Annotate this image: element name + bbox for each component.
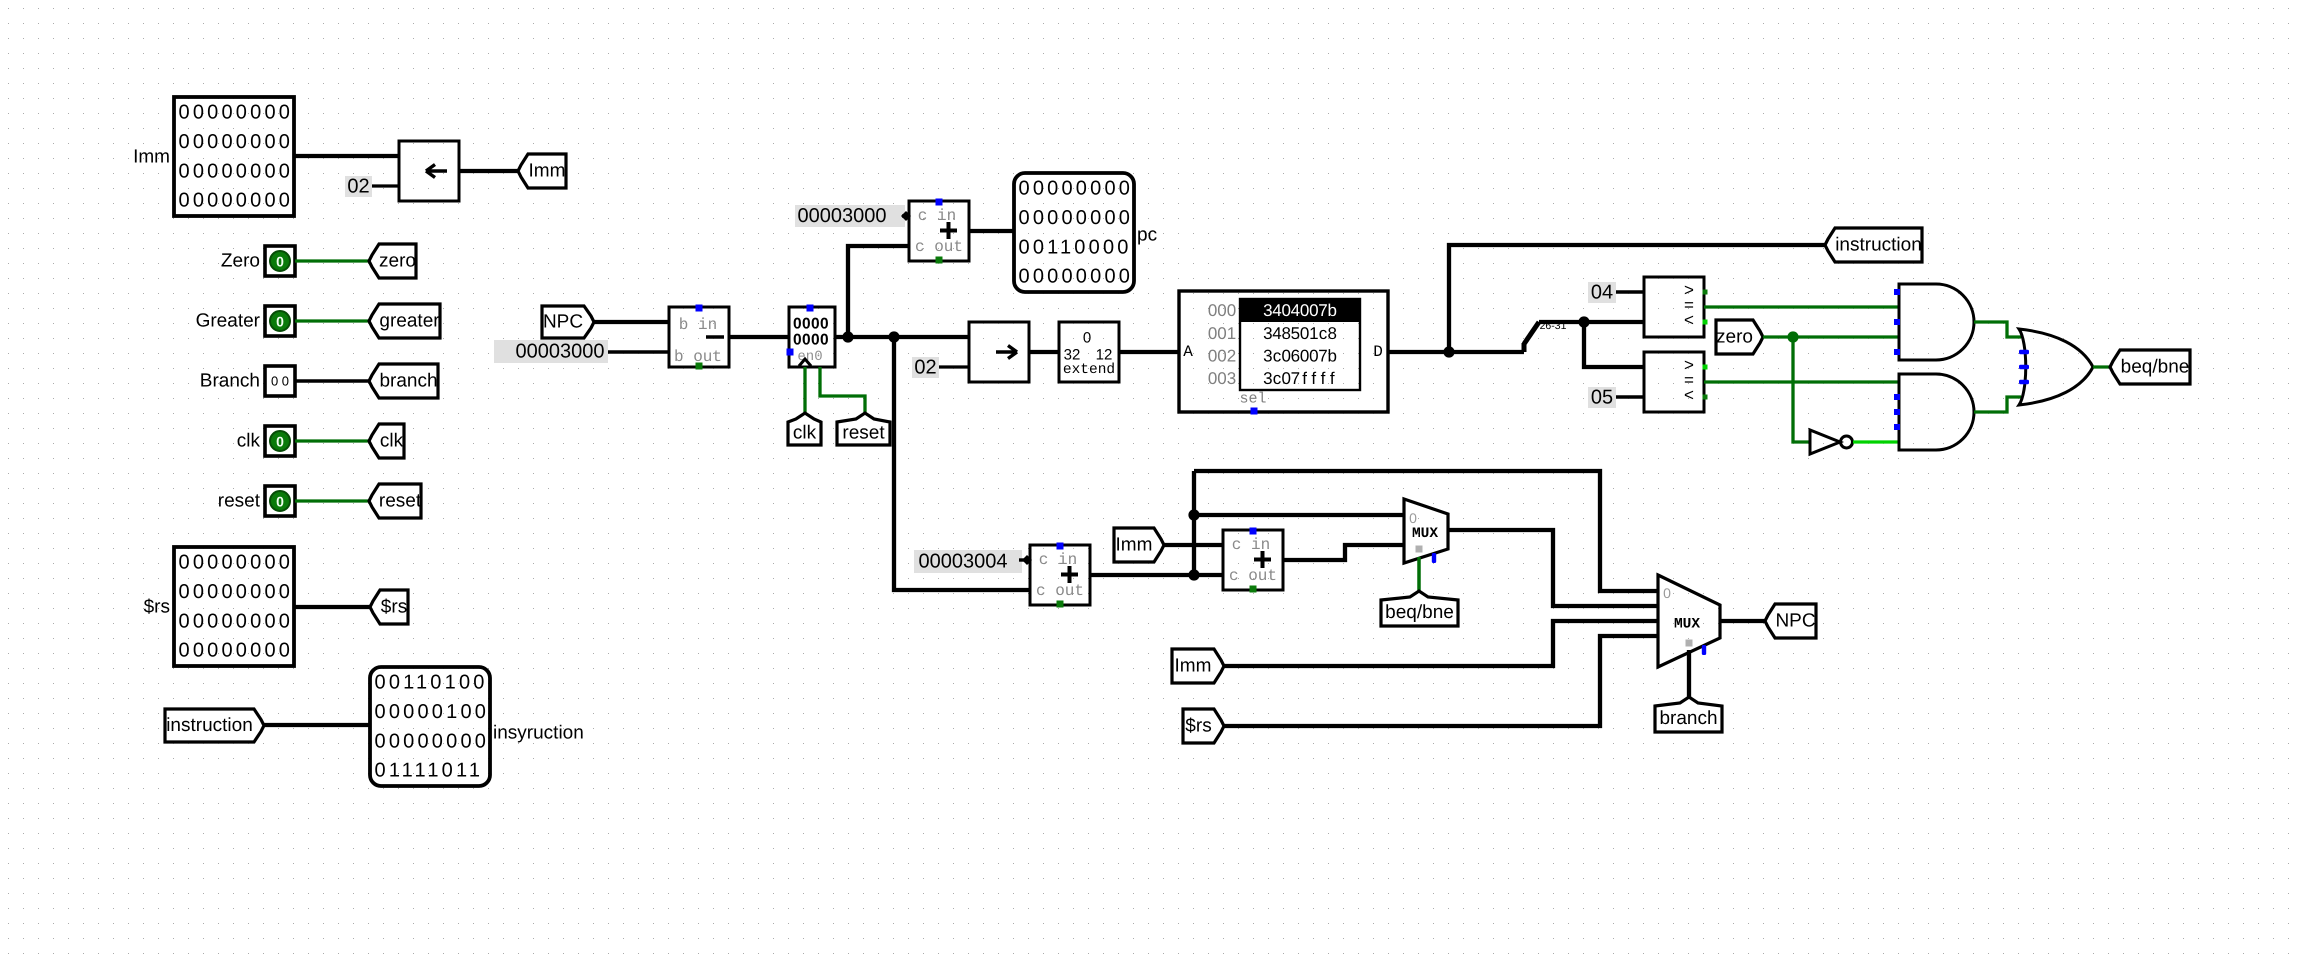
probe Imm (32-bit value display): [174, 97, 294, 216]
tunnel $rs (source, lower): [1183, 709, 1224, 743]
wire 04 to comparator 1: [1616, 290, 1644, 293]
adder A3 (PC+4 lower) plus symbol: [1061, 566, 1078, 583]
wire adder A4 to MUX1 input 1: [1283, 545, 1404, 560]
wire Imm probe to shifter: [294, 154, 399, 158]
svg-text:01111011: 01111011: [375, 760, 484, 782]
svg-text:Imm: Imm: [1116, 535, 1153, 556]
svg-text:reset: reset: [379, 491, 422, 512]
svg-text:clk: clk: [793, 423, 817, 444]
wire MUX2 select from branch: [1687, 650, 1691, 698]
wire AND2 to OR: [1974, 397, 2021, 412]
ROM M1 highlighted row 000 value 3404007b: [1240, 299, 1360, 322]
wire MUX1 select from beq/bne: [1417, 557, 1421, 592]
svg-text:$rs: $rs: [381, 597, 407, 618]
pin nub at adder A3 c in: [1022, 555, 1032, 565]
wire CMP2 equal to AND2: [1704, 380, 1899, 383]
svg-text:<: <: [1684, 388, 1694, 407]
svg-text:00000000: 00000000: [179, 102, 294, 124]
tunnel $rs (from probe): [370, 590, 408, 624]
comparator CMP1 (opcode == 04): [1644, 277, 1704, 337]
adder A3 (PC+4 lower) carry-in pin (blue): [1057, 543, 1064, 550]
wire NPC to b unit: [594, 320, 669, 324]
svg-text:001: 001: [1208, 324, 1236, 343]
MUX1 select mark (grey): [1416, 546, 1423, 553]
register R1 enable pin (blue): [787, 349, 794, 356]
svg-text:clk: clk: [380, 431, 404, 452]
wire clk tunnel to register clock: [803, 367, 806, 413]
wire top run to MUX2 input 0: [1194, 471, 1658, 591]
wire up to instruction tunnel: [1449, 245, 1825, 352]
wire register to main bus: [835, 335, 969, 339]
svg-text:b in: b in: [679, 316, 717, 334]
junction main bus to branch adder: [888, 331, 899, 342]
svg-text:32: 32: [1064, 347, 1081, 364]
svg-text:beq/bne: beq/bne: [2121, 357, 2190, 378]
svg-text:c out: c out: [1229, 567, 1277, 585]
wire NOT output to AND2: [1853, 440, 1899, 443]
svg-text:D: D: [1373, 343, 1383, 361]
wire Imm to MUX2 input 2: [1224, 621, 1658, 666]
svg-text:MUX: MUX: [1412, 526, 1438, 542]
svg-text:A: A: [1183, 343, 1193, 361]
svg-text:02: 02: [914, 357, 936, 379]
value label 00003000 (pc adder input): [795, 205, 905, 227]
svg-text:clk: clk: [237, 431, 261, 452]
svg-text:003: 003: [1208, 369, 1236, 388]
adder A1 (PC+4) carry-out pin (green): [936, 257, 943, 264]
svg-text:c out: c out: [1036, 582, 1084, 600]
wire instruction tunnel to probe: [264, 723, 370, 727]
adder A1 (PC+4) plus symbol: [940, 222, 957, 239]
svg-text:00000100: 00000100: [375, 701, 490, 723]
subcircuit B1 (b in / b out unit): [669, 307, 729, 367]
svg-text:0000: 0000: [793, 316, 829, 333]
svg-text:MUX: MUX: [1674, 617, 1700, 633]
svg-text:12: 12: [1096, 347, 1113, 364]
svg-text:extend: extend: [1063, 362, 1115, 378]
AND gate G1 (beq term): [1899, 284, 1974, 360]
wire 00003004 label to adder A3: [1019, 558, 1030, 561]
value label 04: [1588, 282, 1616, 303]
svg-text:sel: sel: [1239, 391, 1266, 408]
svg-text:00000000: 00000000: [179, 160, 294, 182]
adder A4 (branch target) carry-in pin (blue): [1250, 528, 1257, 535]
tunnel beq/bne (sink, right): [2110, 350, 2190, 384]
tunnel clk (from pin): [369, 424, 404, 458]
tunnel greater (from pin): [369, 304, 440, 338]
adder A1 (PC+4): [909, 201, 969, 261]
svg-text:0 0: 0 0: [271, 374, 289, 389]
svg-text:348501c8: 348501c8: [1263, 324, 1337, 343]
MUX2 select mark (grey): [1686, 640, 1693, 647]
wire bus up to PC adder: [848, 246, 909, 337]
svg-text:$rs: $rs: [1185, 716, 1211, 737]
AND gate G2 (bne term): [1899, 374, 1974, 450]
input pin clk: [265, 426, 295, 456]
wire OR to beq/bne tunnel: [2093, 365, 2110, 368]
shifter U2 arrow glyph: [996, 346, 1017, 359]
tunnel zero (from pin): [369, 244, 416, 278]
wire $rs to MUX2 input 3: [1224, 636, 1658, 726]
svg-text:greater: greater: [379, 311, 440, 332]
comparator CMP1 (opcode == 04) output dot bottom: [1703, 320, 1708, 325]
svg-text:002: 002: [1208, 347, 1236, 366]
adder A1 (PC+4) carry-in pin (blue): [936, 199, 943, 206]
wire bus down to branch adder: [894, 337, 1030, 590]
wire extender to ROM address: [1119, 350, 1179, 354]
tunnel reset (from pin): [369, 484, 421, 518]
probe pc (PC value display): [1014, 173, 1134, 292]
svg-text:04: 04: [1591, 282, 1613, 304]
wire Imm to adder A4: [1164, 543, 1223, 547]
tunnel Imm out (top-left): [518, 154, 566, 188]
wire ROM D output: [1388, 350, 1524, 354]
svg-text:zero: zero: [1716, 327, 1753, 348]
OR gate G4 (branch taken): [2019, 329, 2093, 405]
tunnel instruction (sink, top-right): [1825, 228, 1922, 262]
tunnel NPC (sink, right): [1765, 604, 1816, 638]
wire Zero pin to tunnel: [295, 259, 369, 262]
svg-text:branch: branch: [1659, 708, 1717, 729]
svg-text:00000000: 00000000: [179, 640, 294, 662]
ROM M1 (program memory): [1179, 291, 1388, 412]
wire zero to AND1: [1763, 335, 1899, 338]
svg-text:0: 0: [1083, 330, 1091, 347]
svg-text:zero: zero: [379, 251, 416, 272]
multiplexer MUX2 (NPC select): [1658, 575, 1720, 667]
AND gate G2 floating input marks: [1894, 394, 1900, 400]
wire Branch pin to tunnel: [295, 379, 369, 382]
wire adder A3 output: [1090, 573, 1223, 577]
svg-text:00000000: 00000000: [179, 610, 294, 632]
adder A4 (branch target) plus symbol: [1254, 551, 1271, 568]
wire PC adder to pc probe: [969, 229, 1014, 233]
wire shifter to Imm tunnel: [459, 169, 518, 173]
adder A3 (PC+4 lower): [1030, 545, 1090, 605]
wire to MUX1 input 0: [1194, 513, 1404, 517]
wire 02 to shifter: [372, 184, 399, 187]
wire Greater pin to tunnel: [295, 319, 369, 322]
wire opcode down to comparator 2: [1584, 322, 1644, 367]
input pin Branch (2-bit): [265, 366, 295, 396]
svg-text:0: 0: [276, 254, 284, 270]
shifter U1 arrow glyph: [426, 165, 447, 178]
wire $rs probe to tunnel: [294, 605, 370, 609]
adder A3 (PC+4 lower) carry-out pin (green): [1057, 601, 1064, 608]
svg-text:instruction: instruction: [166, 715, 253, 736]
tunnel beq/bne (select source): [1381, 591, 1458, 626]
junction branch base: [1188, 569, 1199, 580]
svg-text:00000000: 00000000: [1019, 178, 1134, 200]
tunnel Imm (source, lower): [1172, 649, 1224, 683]
svg-text:00000000: 00000000: [375, 730, 490, 752]
junction opcode field: [1578, 316, 1589, 327]
svg-text:instruction: instruction: [1835, 235, 1922, 256]
junction zero signal: [1787, 331, 1798, 342]
wire MUX2 output to NPC: [1720, 619, 1765, 623]
NOT gate G3: [1810, 430, 1840, 454]
wire 00003000 label to pc adder: [902, 214, 909, 217]
junction main bus to PC adder: [842, 331, 853, 342]
input pin Zero: [265, 246, 295, 276]
svg-text:reset: reset: [842, 423, 885, 444]
tunnel branch (from pin): [369, 364, 438, 398]
wire reset pin to tunnel: [295, 499, 369, 502]
register R1 (PC register 0000 0000): [789, 307, 835, 367]
probe $rs (32-bit value display): [174, 547, 294, 666]
svg-text:3c06007b: 3c06007b: [1263, 347, 1337, 366]
wire b unit to register: [729, 335, 789, 339]
svg-text:00000000: 00000000: [179, 552, 294, 574]
svg-text:Greater: Greater: [196, 311, 261, 332]
svg-text:00000000: 00000000: [1019, 207, 1134, 229]
value label 02 (shift amount): [345, 176, 372, 197]
svg-text:0: 0: [1663, 585, 1671, 601]
wire splitter to comparator row: [1539, 320, 1644, 324]
MUX1 enable mark (blue): [1432, 553, 1436, 563]
svg-text:05: 05: [1591, 387, 1613, 409]
tunnel NPC (source into b unit): [542, 306, 594, 338]
wire 00003000 label to b unit: [608, 350, 669, 353]
wire zero down to NOT gate: [1793, 337, 1810, 442]
value label 00003000 (b out): [494, 340, 608, 363]
wire CMP1 equal to AND1: [1704, 305, 1899, 308]
svg-text:00003000: 00003000: [798, 205, 887, 227]
comparator CMP2 (opcode == 05) output dot bottom: [1703, 395, 1708, 400]
svg-text:02: 02: [347, 176, 369, 198]
svg-text:Zero: Zero: [221, 251, 260, 272]
svg-text:$rs: $rs: [144, 597, 170, 618]
comparator CMP2 (opcode == 05): [1644, 352, 1704, 412]
svg-text:00003004: 00003004: [919, 551, 1008, 573]
svg-text:3c07ffff: 3c07ffff: [1263, 369, 1335, 388]
comparator CMP2 (opcode == 05) output dot top: [1703, 365, 1708, 370]
svg-text:NPC: NPC: [543, 312, 583, 333]
tunnel clk (to register): [788, 413, 821, 445]
tunnel branch (select source): [1655, 697, 1722, 732]
splitter S1 diagonal 26-31: [1524, 322, 1539, 344]
svg-text:00003000: 00003000: [516, 341, 605, 363]
svg-text:insyruction: insyruction: [493, 723, 584, 744]
svg-text:0: 0: [276, 314, 284, 330]
splitter S1 stub: [1522, 343, 1527, 352]
comparator CMP1 (opcode == 04) output dot top: [1703, 290, 1708, 295]
register R1 clock triangle: [799, 359, 811, 366]
ROM M1 data table border: [1240, 299, 1360, 390]
svg-text:000: 000: [1208, 301, 1236, 320]
value label 05: [1588, 387, 1616, 408]
adder A4 (branch target): [1223, 530, 1283, 590]
svg-text:00000000: 00000000: [179, 131, 294, 153]
svg-text:Branch: Branch: [200, 371, 260, 392]
wire clk pin to tunnel: [295, 439, 369, 442]
svg-text:00000000: 00000000: [1019, 266, 1134, 288]
probe insyruction (instruction display): [370, 667, 490, 786]
tunnel Imm (source, to adder A4): [1114, 528, 1164, 562]
svg-text:00000000: 00000000: [179, 581, 294, 603]
tunnel zero (source, right): [1716, 320, 1763, 354]
svg-text:0: 0: [276, 434, 284, 450]
subcircuit B1 top pin (blue): [696, 305, 703, 312]
multiplexer MUX1 (branch target select): [1404, 499, 1448, 563]
tunnel reset (to register): [837, 413, 890, 445]
AND gate G1 floating input marks: [1894, 289, 1900, 295]
wire 02 to shifter U2: [939, 365, 969, 368]
register R1 top pin (blue): [807, 305, 814, 312]
svg-text:NPC: NPC: [1775, 611, 1815, 632]
svg-text:00110000: 00110000: [1019, 236, 1132, 258]
svg-text:<: <: [1684, 313, 1694, 332]
pin nub at pc adder c in: [901, 211, 911, 221]
svg-text:pc: pc: [1137, 225, 1157, 246]
wire reset tunnel to register: [820, 367, 865, 413]
wire 05 to comparator 2: [1616, 395, 1644, 398]
wire MUX1 output: [1448, 530, 1658, 606]
wire shifter U2 to extender: [1029, 350, 1059, 354]
wire AND1 to OR: [1974, 322, 2021, 337]
svg-text:Imm: Imm: [133, 147, 170, 168]
shifter U1 (shift left): [399, 141, 459, 201]
svg-text:beq/bne: beq/bne: [1385, 602, 1454, 623]
wire branch base up: [1192, 471, 1196, 575]
svg-text:0000: 0000: [793, 332, 829, 349]
tunnel instruction (source, bottom-left): [165, 709, 264, 742]
adder A4 (branch target) carry-out pin (green): [1250, 586, 1257, 593]
svg-text:0: 0: [1409, 510, 1417, 526]
svg-text:c out: c out: [915, 238, 963, 256]
OR gate G4 floating input marks: [2019, 350, 2029, 354]
svg-text:00000000: 00000000: [179, 190, 294, 212]
bit extender X1 (32 to 12): [1059, 322, 1119, 382]
subcircuit B1 bottom pin (green): [696, 363, 703, 370]
svg-text:branch: branch: [379, 371, 437, 392]
input pin Greater: [265, 306, 295, 336]
svg-text:Imm: Imm: [529, 161, 566, 182]
junction instruction tap: [1443, 346, 1454, 357]
ROM M1 sel pin (blue): [1251, 408, 1258, 415]
value label 00003004: [914, 550, 1022, 573]
value label 02 (shift amount 2): [912, 357, 939, 378]
MUX2 enable mark (blue): [1702, 645, 1706, 655]
svg-text:0: 0: [276, 494, 284, 510]
svg-text:Imm: Imm: [1175, 656, 1212, 677]
svg-text:3404007b: 3404007b: [1263, 301, 1337, 320]
svg-text:00110100: 00110100: [375, 672, 488, 694]
subcircuit B1 minus mark: [706, 335, 724, 338]
junction to MUX1 input0: [1188, 509, 1199, 520]
svg-text:reset: reset: [218, 491, 261, 512]
shifter U2 (shift right): [969, 322, 1029, 382]
input pin reset: [265, 486, 295, 516]
